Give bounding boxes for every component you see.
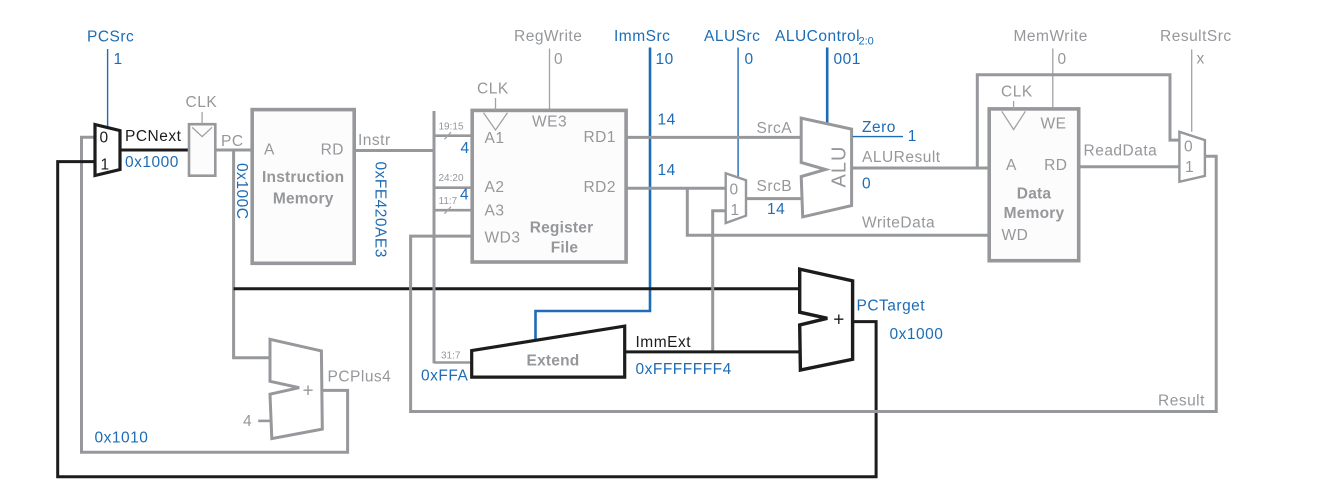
wire PCTarget feedback into mux input 1 xyxy=(58,162,876,477)
label ALUSrc xyxy=(704,28,760,45)
svg-text:ALU: ALU xyxy=(829,146,851,188)
wire ImmSrc control line xyxy=(536,48,651,342)
label PCNext xyxy=(125,128,182,145)
constant 4 xyxy=(243,413,252,430)
svg-text:PCSrc: PCSrc xyxy=(87,29,134,46)
value MemWrite = 0 xyxy=(1058,51,1067,68)
label SrcB xyxy=(757,178,793,195)
value ALUResult = 0 xyxy=(862,175,871,192)
svg-text:14: 14 xyxy=(658,111,676,128)
wire ALUResult xyxy=(852,167,990,170)
svg-text:WD: WD xyxy=(1002,227,1029,244)
value PC = 0x100C (vertical) xyxy=(233,163,250,219)
value ALUSrc = 0 xyxy=(745,51,754,68)
svg-text:24:20: 24:20 xyxy=(439,173,464,184)
svg-text:MemWrite: MemWrite xyxy=(1014,28,1088,45)
value PCTarget = 0x1000 xyxy=(890,326,944,343)
svg-text:0: 0 xyxy=(1058,51,1067,68)
label CLK (data memory) xyxy=(1001,84,1033,101)
svg-text:1: 1 xyxy=(114,51,123,68)
value RegWrite = 0 xyxy=(554,51,563,68)
svg-text:0: 0 xyxy=(1184,138,1193,155)
svg-text:Memory: Memory xyxy=(273,191,334,208)
wire RD2 branch to WriteData xyxy=(687,188,989,235)
label WriteData xyxy=(862,215,935,232)
wire ALUResult bypass to ResultSrc mux input 0 xyxy=(977,75,1179,168)
label RegWrite xyxy=(514,28,582,45)
svg-text:0xFE420AE3: 0xFE420AE3 xyxy=(372,162,389,258)
mux SrcB xyxy=(726,173,746,223)
svg-text:ReadData: ReadData xyxy=(1084,142,1158,159)
wire PC to instruction memory xyxy=(215,149,252,152)
value Zero = 1 xyxy=(908,128,917,145)
value SrcB = 14 xyxy=(767,201,785,218)
svg-text:Zero: Zero xyxy=(862,119,896,136)
wire SrcB xyxy=(746,197,801,200)
wire CLK tick (register file) xyxy=(495,98,497,110)
instruction memory xyxy=(252,110,354,264)
wire PC branch down to PCPlus4 adder xyxy=(234,150,271,358)
svg-text:Memory: Memory xyxy=(1004,205,1065,222)
value RD1 = 14 xyxy=(658,111,676,128)
value PCSrc = 1 xyxy=(114,51,123,68)
svg-text:Instr: Instr xyxy=(358,132,391,149)
extend unit xyxy=(472,326,625,377)
wire Instr[24:20] to A2 xyxy=(434,186,472,189)
value PCNext = 0x1000 xyxy=(125,154,179,171)
svg-text:A2: A2 xyxy=(485,179,505,196)
svg-text:0xFFFFFFF4: 0xFFFFFFF4 xyxy=(636,361,732,378)
value A1 = 4 xyxy=(461,140,470,157)
svg-text:0: 0 xyxy=(862,175,871,192)
svg-text:RD: RD xyxy=(1044,157,1067,174)
wire CLK tick (PC register) xyxy=(201,112,203,124)
svg-text:+: + xyxy=(302,381,313,402)
svg-text:WE: WE xyxy=(1041,116,1067,133)
value ResultSrc = x xyxy=(1197,51,1205,68)
svg-text:ImmSrc: ImmSrc xyxy=(614,28,670,45)
svg-text:0: 0 xyxy=(554,51,563,68)
wire PCPlus4 feedback into mux input 0 xyxy=(82,137,348,452)
wire Instr xyxy=(354,149,434,152)
svg-text:1: 1 xyxy=(101,157,110,174)
wire Instr[31:7] to Extend xyxy=(434,361,472,364)
wire PC to PCTarget adder (black) xyxy=(234,287,800,290)
label ImmExt xyxy=(636,334,692,351)
svg-text:0: 0 xyxy=(730,182,739,199)
value A3 = 4 xyxy=(460,187,469,204)
wire ResultSrc control line xyxy=(1191,49,1193,131)
wire Result xyxy=(411,156,1217,411)
svg-text:Data: Data xyxy=(1017,186,1052,203)
value Instr[31:7] = 0xFFA xyxy=(421,367,468,384)
svg-text:Instruction: Instruction xyxy=(262,169,344,186)
svg-text:PCNext: PCNext xyxy=(125,128,182,145)
svg-text:0: 0 xyxy=(745,51,754,68)
svg-text:0x100C: 0x100C xyxy=(233,163,250,219)
label SrcA xyxy=(757,120,793,137)
label ImmSrc xyxy=(614,28,670,45)
label PCTarget xyxy=(857,298,926,315)
wire PCSrc control line xyxy=(107,49,109,127)
svg-text:WriteData: WriteData xyxy=(862,215,935,232)
svg-text:14: 14 xyxy=(767,201,785,218)
wire CLK tick (data memory) xyxy=(1013,101,1015,109)
svg-text:2:0: 2:0 xyxy=(859,36,874,48)
wire Instr[11:7] to A3 xyxy=(434,209,472,212)
value ALUControl = 001 xyxy=(834,51,861,68)
wire RegWrite control line xyxy=(549,49,551,111)
label ReadData xyxy=(1084,142,1158,159)
wire RD2 xyxy=(626,187,726,190)
pin label 31:7 xyxy=(441,351,461,362)
wire MemWrite control line xyxy=(1052,49,1054,109)
wire RD1 / SrcA xyxy=(626,136,801,139)
label MemWrite xyxy=(1014,28,1088,45)
value ImmSrc = 10 xyxy=(656,51,674,68)
svg-text:RegWrite: RegWrite xyxy=(514,28,582,45)
svg-text:WD3: WD3 xyxy=(485,229,521,246)
svg-text:+: + xyxy=(833,310,844,331)
wire PCNext xyxy=(120,149,189,152)
svg-text:ResultSrc: ResultSrc xyxy=(1160,28,1232,45)
mux ResultSrc xyxy=(1179,132,1205,182)
wire Zero flag xyxy=(853,136,903,138)
svg-text:A3: A3 xyxy=(485,203,505,220)
wire ALUSrc control line xyxy=(737,48,739,178)
svg-text:4: 4 xyxy=(461,140,470,157)
svg-text:CLK: CLK xyxy=(477,81,509,98)
svg-text:0x1000: 0x1000 xyxy=(125,154,179,171)
svg-text:4: 4 xyxy=(460,187,469,204)
svg-text:CLK: CLK xyxy=(1001,84,1033,101)
svg-text:A: A xyxy=(1006,157,1017,174)
svg-text:PC: PC xyxy=(221,133,244,150)
register file xyxy=(472,110,626,262)
svg-text:14: 14 xyxy=(658,162,676,179)
label Instr xyxy=(358,132,391,149)
svg-text:ALUResult: ALUResult xyxy=(862,149,941,166)
svg-text:1: 1 xyxy=(908,128,917,145)
svg-text:1: 1 xyxy=(1185,159,1194,176)
adder PCTarget xyxy=(800,269,853,370)
label PCSrc xyxy=(87,29,134,46)
wire ImmExt xyxy=(625,350,800,353)
label CLK (register file) xyxy=(477,81,509,98)
label ALUResult xyxy=(862,149,941,166)
wire ImmExt up to SrcB mux input 1 xyxy=(713,211,726,352)
svg-text:ALUControl: ALUControl xyxy=(775,28,860,45)
label ResultSrc xyxy=(1160,28,1232,45)
svg-text:19:15: 19:15 xyxy=(439,122,464,133)
svg-text:0x1010: 0x1010 xyxy=(95,430,149,447)
wire ReadData xyxy=(1079,165,1180,168)
svg-text:Result: Result xyxy=(1158,392,1205,409)
svg-text:0xFFA: 0xFFA xyxy=(421,367,468,384)
svg-text:A: A xyxy=(264,141,275,158)
svg-text:001: 001 xyxy=(834,51,861,68)
label CLK (PC register) xyxy=(186,94,218,111)
bus slash A3 xyxy=(445,207,452,214)
svg-text:Register: Register xyxy=(530,220,594,237)
value PCPlus4 = 0x1010 xyxy=(95,430,149,447)
svg-text:WE3: WE3 xyxy=(532,114,567,131)
pin label 24:20 xyxy=(439,173,464,184)
svg-text:PCPlus4: PCPlus4 xyxy=(328,369,392,386)
wire Instr[19:15] to A1 xyxy=(434,134,472,137)
pin label 11:7 xyxy=(439,196,458,207)
mux PCSrc xyxy=(95,125,120,176)
svg-text:SrcA: SrcA xyxy=(757,120,793,137)
svg-text:ImmExt: ImmExt xyxy=(636,334,692,351)
svg-text:A1: A1 xyxy=(485,130,505,147)
wire Instr bus vertical xyxy=(433,111,436,363)
op-amp ALU xyxy=(801,118,851,217)
svg-text:File: File xyxy=(551,240,579,257)
value RD2 = 14 xyxy=(658,162,676,179)
adder PCPlus4 xyxy=(270,339,322,438)
svg-text:Extend: Extend xyxy=(527,352,580,369)
wire constant 4 stub xyxy=(258,420,270,423)
svg-text:ALUSrc: ALUSrc xyxy=(704,28,760,45)
label Result xyxy=(1158,392,1205,409)
svg-text:11:7: 11:7 xyxy=(439,196,458,207)
svg-text:10: 10 xyxy=(656,51,674,68)
label Zero xyxy=(862,119,896,136)
svg-text:RD2: RD2 xyxy=(583,179,616,196)
register PC xyxy=(189,124,215,176)
bus slash A1 xyxy=(445,132,452,139)
svg-text:31:7: 31:7 xyxy=(441,351,461,362)
data memory xyxy=(989,109,1078,261)
svg-text:x: x xyxy=(1197,51,1205,68)
svg-text:RD: RD xyxy=(321,141,344,158)
wire ALUControl control line xyxy=(826,48,829,124)
label PCPlus4 xyxy=(328,369,392,386)
svg-text:0x1000: 0x1000 xyxy=(890,326,944,343)
svg-text:SrcB: SrcB xyxy=(757,178,793,195)
value Instr = 0xFE420AE3 (vertical) xyxy=(372,162,389,258)
svg-text:CLK: CLK xyxy=(186,94,218,111)
value ImmExt = 0xFFFFFFF4 xyxy=(636,361,732,378)
svg-text:RD1: RD1 xyxy=(583,129,616,146)
label ALUControl 2:0 xyxy=(775,28,874,48)
svg-text:0: 0 xyxy=(100,130,109,147)
label PC xyxy=(221,133,244,150)
svg-text:4: 4 xyxy=(243,413,252,430)
svg-text:PCTarget: PCTarget xyxy=(857,298,926,315)
pin label 19:15 xyxy=(439,122,464,133)
svg-text:1: 1 xyxy=(731,202,740,219)
